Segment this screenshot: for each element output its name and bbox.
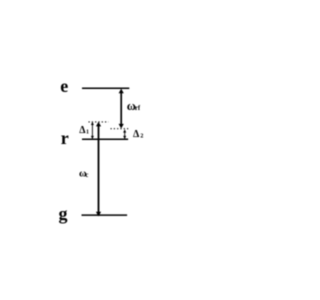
svg-text:e: e — [60, 76, 68, 96]
svg-text:r: r — [61, 128, 69, 148]
Delta2 small double-headed arrow (lower dotted line to r) — [123, 129, 126, 139]
level g line — [82, 214, 128, 216]
omega_c double-headed arrow (upper dotted line to g) — [96, 122, 101, 217]
dotted virtual level below e detuning (Delta2 reference) — [111, 128, 130, 130]
omega_rf double-headed arrow (e to lower dotted line) — [119, 89, 124, 129]
svg-text:Δ: Δ — [133, 129, 140, 140]
svg-text:1: 1 — [86, 129, 89, 135]
level e line — [82, 87, 129, 89]
svg-text:g: g — [59, 204, 68, 224]
svg-text:rf: rf — [135, 105, 141, 112]
level r line — [82, 138, 128, 140]
dotted virtual level above r (Delta1 reference) — [89, 121, 109, 123]
svg-text:2: 2 — [140, 134, 143, 140]
svg-text:c: c — [85, 172, 88, 179]
Delta1 small double-headed arrow (r to upper dotted line) — [91, 122, 94, 140]
